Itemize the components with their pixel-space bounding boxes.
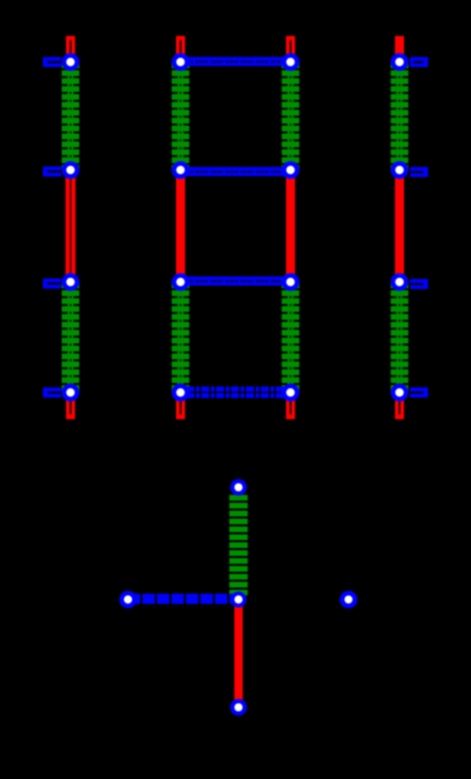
net label col4 row2 <box>410 167 429 177</box>
node col3 row4 <box>282 384 300 402</box>
node col1 row1 <box>62 53 80 71</box>
wire stub col4 bottom <box>395 392 404 419</box>
node col4 row2 <box>391 161 409 179</box>
node col2 row3 <box>172 273 190 291</box>
wire col4 mid <box>395 170 404 282</box>
bus bar row4 (dashed) <box>181 387 291 399</box>
resistor R4 (col2 bottom) <box>172 282 190 391</box>
node bottom centre <box>231 592 247 608</box>
net label col4 row1 <box>410 57 428 67</box>
bus bar row1 <box>181 57 291 66</box>
node col3 row3 <box>282 273 300 291</box>
resistor R1 (col1 top) <box>62 62 80 170</box>
net label col1 row1 <box>43 57 61 67</box>
wire col2 mid <box>176 170 185 282</box>
resistor R3 (col2 top) <box>172 62 190 170</box>
net label col1 row3 <box>43 279 61 289</box>
net label col1 row4 <box>43 388 61 398</box>
resistor R5 (col3 top) <box>282 62 300 170</box>
net label col4 row4 <box>410 388 429 398</box>
node col2 row1 <box>172 53 190 71</box>
wire stub col1 bottom <box>66 392 75 419</box>
wire col1 mid (hollow) <box>66 170 76 282</box>
node bottom lone right <box>340 591 358 609</box>
node col2 row4 <box>172 384 190 402</box>
node col1 row3 <box>62 273 80 291</box>
wire stub col1 top <box>66 36 75 62</box>
wire stub col4 top (solid) <box>395 36 404 62</box>
resistor R6 (col3 bottom) <box>282 282 300 391</box>
resistor R9 (bottom section) <box>229 495 247 596</box>
bus bar row2 <box>181 167 291 176</box>
node col4 row3 <box>391 273 409 291</box>
wire stub col2 bottom <box>176 392 185 419</box>
wire stub col3 top <box>286 36 295 62</box>
net label col4 row3 <box>410 279 429 289</box>
node col3 row1 <box>282 53 300 71</box>
node col1 row2 <box>62 161 80 179</box>
node col4 row4 <box>391 384 409 402</box>
wire col3 mid <box>286 170 295 282</box>
node col1 row4 <box>62 384 80 402</box>
node bottom top <box>230 479 247 496</box>
bus bar row3 <box>181 277 291 286</box>
node bottom left <box>119 591 136 608</box>
wire stub col3 bottom <box>286 392 295 419</box>
net label col1 row2 <box>43 167 61 177</box>
resistor R8 (col4 bottom) <box>391 282 409 391</box>
node col2 row2 <box>172 161 190 179</box>
node col3 row2 <box>282 161 300 179</box>
wire bottom section vertical <box>234 600 242 708</box>
resistor R2 (col1 bottom) <box>62 282 80 391</box>
bus bar bottom section <box>128 594 239 604</box>
node bottom end <box>230 699 247 716</box>
wire stub col2 top <box>176 36 185 62</box>
resistor R7 (col4 top) <box>391 62 409 170</box>
node col4 row1 <box>391 53 409 71</box>
